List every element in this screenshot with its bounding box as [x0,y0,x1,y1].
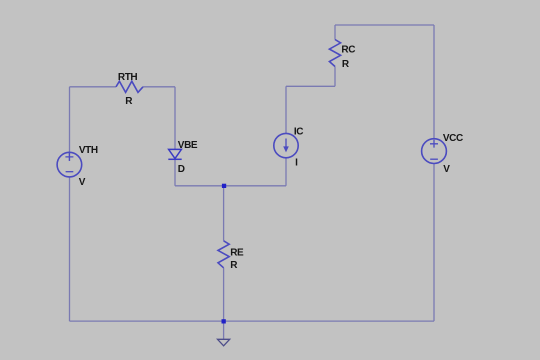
wire VCC top [433,25,435,139]
svg-text:VCC: VCC [443,133,463,144]
svg-text:IC: IC [294,127,303,138]
svg-text:R: R [230,260,238,271]
wire node rail [175,185,286,187]
svg-text:RE: RE [230,248,244,259]
resistor RC [329,40,340,67]
wire RE top [223,186,225,241]
wire bottom rail [70,320,435,322]
svg-text:V: V [443,164,450,175]
current source IC [274,133,298,157]
wire top rail [335,24,434,26]
svg-text:V: V [79,177,86,188]
resistor RTH [116,81,143,92]
svg-text:R: R [125,96,133,107]
resistor RE [218,241,229,268]
svg-text:RTH: RTH [118,72,138,83]
svg-text:VBE: VBE [178,140,198,151]
wire VCC bottom [433,164,435,322]
wire RC top stub [334,25,336,40]
junction node emitter-rail [222,319,226,323]
svg-text:D: D [178,164,185,175]
wire IC-RC horizontal [286,85,335,87]
voltage source VTH [57,152,82,177]
wire left vertical upper [69,87,71,161]
wire left vertical lower [69,177,71,321]
wire RE bottom [223,268,225,321]
wire ground stub [223,321,225,339]
junction node base [222,184,226,188]
wire IC top [285,86,287,133]
wire IC bottom [285,158,287,186]
diode VBE [169,149,182,158]
svg-text:RC: RC [341,45,355,56]
ground [218,339,230,346]
wire RC bottom stub [334,67,336,87]
voltage source VCC [422,139,447,164]
wire diode to node [174,159,176,185]
svg-text:R: R [342,59,350,70]
wire top-left rail left segment [70,86,117,88]
wire top-left rail right segment [143,86,175,88]
wire VBE branch drop [174,87,176,150]
svg-text:VTH: VTH [79,145,98,156]
